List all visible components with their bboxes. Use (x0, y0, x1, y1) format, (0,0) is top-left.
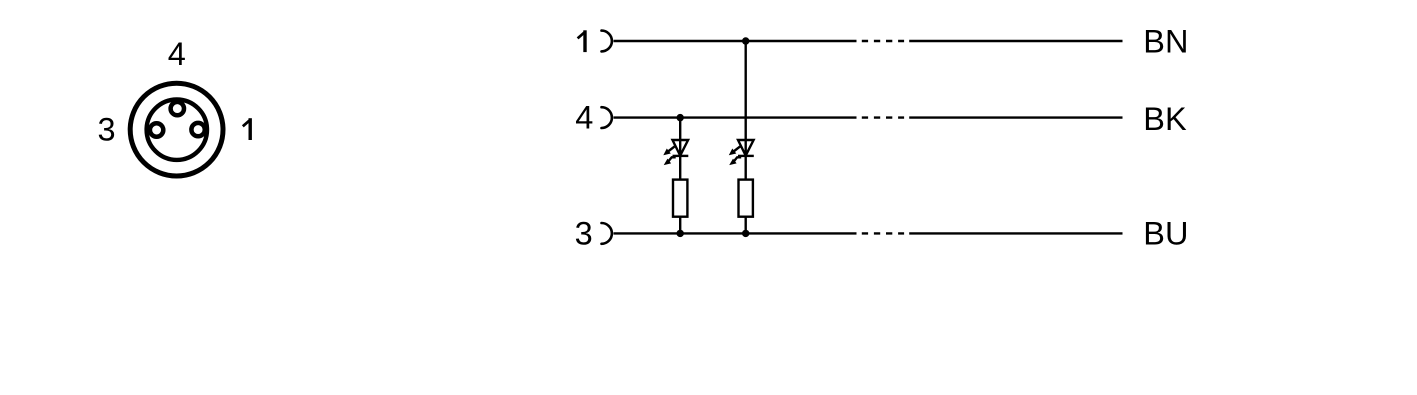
label pin 1 (connector) (243, 118, 251, 140)
wire BK solid right segment (909, 116, 1122, 118)
svg-text:4: 4 (168, 36, 186, 72)
socket contact arc pin 4 (602, 107, 612, 128)
svg-text:3: 3 (97, 112, 115, 148)
wire BK dashed break (862, 116, 904, 118)
wire BU dashed break (862, 232, 904, 234)
LED D2 emission arrow lower (729, 157, 741, 165)
LED D2 emission arrow upper (729, 146, 740, 155)
svg-text:3: 3 (575, 215, 593, 251)
svg-text:BK: BK (1143, 101, 1187, 137)
connector outer shell circle (130, 83, 223, 176)
LED D2 cathode bar (738, 155, 754, 157)
pin 4 contact (top) (171, 102, 184, 115)
svg-text:BN: BN (1143, 24, 1188, 60)
wire BN pin1 solid left segment (614, 40, 857, 42)
label pin 1 (schematic) (578, 30, 586, 52)
LED D1 emission arrow upper (663, 146, 674, 155)
LED D1 triangle (673, 140, 689, 156)
junction dot line3/branch2 (742, 230, 749, 237)
wire branch 1 vertical (pin4 to pin3) (679, 118, 681, 234)
svg-text:4: 4 (575, 100, 593, 136)
wire BU solid right segment (909, 232, 1122, 234)
socket contact arc pin 1 (602, 31, 612, 52)
connector J1 face view (M8, 3-pole) (130, 83, 223, 176)
pin 1 contact (right) (191, 123, 204, 136)
LED D1 cathode bar (673, 155, 689, 157)
wire BN solid right segment (909, 40, 1122, 42)
socket contact arc pin 3 (602, 223, 612, 244)
wire BU pin3 solid left segment (614, 232, 857, 234)
junction dot line3/branch1 (677, 230, 684, 237)
svg-text:BU: BU (1143, 216, 1188, 252)
resistor R1 body (673, 180, 687, 217)
pin 3 contact (left) (150, 123, 163, 136)
LED D2 triangle (738, 140, 754, 156)
resistor R2 body (739, 180, 753, 217)
wire BK pin4 solid left segment (614, 116, 857, 118)
junction dot line1/branch2 (742, 37, 749, 44)
LED D1 emission arrow lower (664, 157, 676, 165)
wire BN dashed break (862, 40, 904, 42)
connector insert inner circle (147, 100, 207, 160)
wire branch 2 vertical (pin1 to pin3) (745, 41, 747, 233)
junction dot line4/branch1 (677, 114, 684, 121)
